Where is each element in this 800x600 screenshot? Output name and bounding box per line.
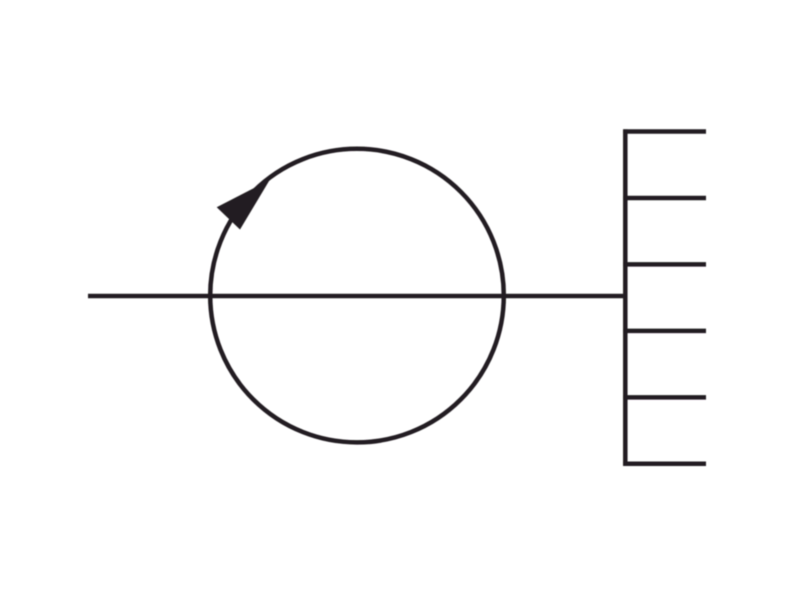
comb vertical bar: [623, 129, 628, 466]
comb tooth 6: [623, 462, 706, 467]
rotation circle (pump/motor body): [210, 149, 504, 443]
comb tooth 1: [623, 129, 706, 134]
comb tooth 2: [623, 196, 706, 201]
comb tooth 4: [623, 329, 706, 334]
wire main horizontal line: [88, 294, 623, 299]
arrowhead (counterclockwise rotation arrow): [217, 180, 270, 230]
comb tooth 5: [623, 395, 706, 400]
comb tooth 3: [623, 262, 706, 267]
